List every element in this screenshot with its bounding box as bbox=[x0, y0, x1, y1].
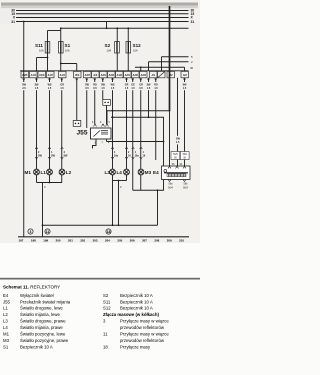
wire drop x36.5 bbox=[36, 58, 38, 71]
svg-text:Bezpiecznik 10 A: Bezpiecznik 10 A bbox=[20, 344, 53, 349]
lamp labels bbox=[25, 170, 160, 175]
svg-text:A2/2: A2/2 bbox=[133, 74, 139, 77]
svg-text:J/1: J/1 bbox=[152, 74, 156, 77]
svg-text:L4: L4 bbox=[3, 325, 8, 330]
svg-text:S2: S2 bbox=[105, 43, 111, 48]
junction dots mid bbox=[42, 110, 171, 226]
wire ground vertical from bus 31 bbox=[23, 22, 25, 237]
bus 31 bbox=[16, 21, 189, 23]
wire drop x161.5 bbox=[161, 57, 163, 71]
svg-text:Bezpiecznik 10 A: Bezpiecznik 10 A bbox=[120, 306, 153, 311]
svg-text:31: 31 bbox=[191, 20, 195, 24]
svg-text:przewodów reflektorów: przewodów reflektorów bbox=[120, 338, 165, 343]
wire S1 bottom bbox=[60, 53, 62, 71]
fuse S1 bbox=[59, 42, 71, 54]
connector box J/1 bbox=[150, 71, 158, 77]
wire track relay feed a bbox=[86, 78, 88, 128]
wire relay bottom pin 3 bbox=[93, 139, 97, 149]
wire track E4 pin c bbox=[184, 78, 186, 166]
wire track L2 bbox=[61, 78, 63, 183]
svg-text:10A: 10A bbox=[107, 49, 112, 53]
bottom border bbox=[18, 236, 189, 238]
wire feed X rail y28 bbox=[61, 27, 189, 29]
connector box A1/4 bbox=[30, 71, 38, 77]
svg-text:S12: S12 bbox=[133, 43, 142, 48]
svg-text:Bezpiecznik 10 A: Bezpiecznik 10 A bbox=[120, 293, 153, 298]
svg-text:A2/1: A2/1 bbox=[125, 74, 131, 77]
divider rule bbox=[0, 278, 200, 280]
svg-text:Światło mijania, prawe: Światło mijania, prawe bbox=[20, 325, 63, 330]
svg-text:16a: 16a bbox=[114, 155, 119, 158]
svg-text:210: 210 bbox=[179, 239, 184, 243]
svg-text:10A: 10A bbox=[65, 49, 70, 53]
lamp L2 bbox=[59, 169, 65, 175]
junction JM10 at 118.5,180.5 bbox=[118, 180, 120, 182]
connector box A1/1 bbox=[59, 71, 67, 77]
junction JM3 at 126.5,117.25 bbox=[126, 116, 128, 118]
svg-text:Przekaźnik świateł mijania: Przekaźnik świateł mijania bbox=[20, 299, 71, 304]
svg-text:205: 205 bbox=[117, 239, 122, 243]
ground 3 bbox=[28, 229, 33, 234]
wire stub y30.5 bbox=[48, 30, 61, 32]
svg-text:B/3: B/3 bbox=[75, 74, 80, 77]
wire pos box to relay bbox=[106, 105, 108, 124]
lamp M3 bbox=[138, 169, 144, 175]
wire track x148.5 bbox=[148, 78, 150, 117]
bus labels right bbox=[191, 8, 195, 23]
svg-text:199: 199 bbox=[43, 239, 48, 243]
switch E4 bbox=[162, 164, 191, 189]
svg-text:A/2: A/2 bbox=[183, 74, 188, 77]
svg-text:M1: M1 bbox=[3, 332, 10, 337]
svg-text:198: 198 bbox=[31, 239, 36, 243]
svg-text:A3/7: A3/7 bbox=[85, 74, 91, 77]
junction JM2 at 112.5,117.25 bbox=[112, 116, 114, 118]
wire drop x148.5 bbox=[148, 62, 150, 71]
connector box A/2 bbox=[181, 71, 189, 77]
svg-text:11: 11 bbox=[103, 332, 108, 337]
svg-text:S11: S11 bbox=[103, 299, 111, 304]
connector box texts bbox=[22, 74, 187, 77]
junction JM8 at 42.5,225.25 bbox=[42, 224, 44, 226]
junction JT6 at 140.75,67.25 bbox=[140, 66, 142, 68]
wire track M3 bbox=[140, 78, 142, 190]
wire track relay feed b bbox=[94, 78, 96, 124]
wire lamp join left bbox=[37, 182, 63, 184]
svg-text:56b: 56b bbox=[184, 183, 189, 186]
svg-text:L4: L4 bbox=[117, 170, 123, 175]
junction JM1 at 112.5,110.75 bbox=[112, 110, 114, 112]
svg-text:Przyłącze masy: Przyłącze masy bbox=[120, 344, 151, 349]
svg-text:Światło mijania, lewe: Światło mijania, lewe bbox=[20, 312, 60, 317]
connector box A2/2 bbox=[132, 71, 140, 77]
connector split arrows bbox=[35, 147, 142, 159]
svg-text:A1/9: A1/9 bbox=[39, 74, 45, 77]
wire S2 top bbox=[116, 28, 118, 41]
wire S12 bottom bbox=[127, 53, 129, 71]
connector T2 small box bbox=[73, 121, 81, 127]
svg-text:M1: M1 bbox=[25, 170, 32, 175]
svg-text:L1: L1 bbox=[41, 170, 47, 175]
scan shading top bbox=[1, 3, 198, 6]
svg-text:A/3: A/3 bbox=[93, 74, 98, 77]
svg-text:Przyłącze masy w wiązce: Przyłącze masy w wiązce bbox=[120, 319, 169, 324]
wire tap bus to y28 bbox=[106, 22, 108, 29]
junction JM7 at 118.5,225.25 bbox=[118, 224, 120, 226]
connector box A1/9 bbox=[38, 71, 46, 77]
wire branch y63.5 bbox=[61, 63, 77, 65]
svg-text:18: 18 bbox=[107, 230, 111, 234]
connector box A2/5 bbox=[21, 71, 29, 77]
wire track x156 bbox=[155, 78, 157, 160]
relay position box bbox=[103, 100, 111, 106]
svg-text:Światło pozycyjne, lewe: Światło pozycyjne, lewe bbox=[20, 332, 66, 337]
svg-text:31: 31 bbox=[11, 20, 15, 24]
junction JM11 at 157.5,190.25 bbox=[157, 189, 159, 191]
connector box A/3 bbox=[92, 71, 100, 77]
wire drop x141 bbox=[140, 67, 142, 71]
connector box A3/1 bbox=[100, 71, 108, 77]
junction JM6 at 112.5,225.25 bbox=[112, 224, 114, 226]
svg-text:201: 201 bbox=[68, 239, 73, 243]
track numbers bbox=[19, 239, 185, 243]
svg-text:3: 3 bbox=[30, 230, 32, 234]
wire S11 bottom bbox=[47, 53, 49, 71]
lamp L3 bbox=[110, 169, 116, 175]
svg-text:56a: 56a bbox=[169, 183, 174, 186]
svg-text:10A: 10A bbox=[39, 49, 44, 53]
svg-text:S1: S1 bbox=[3, 344, 9, 349]
svg-text:Złącza masowe (w kółkach): Złącza masowe (w kółkach) bbox=[103, 312, 159, 317]
wire labels mid height bbox=[38, 151, 146, 158]
svg-text:J55: J55 bbox=[77, 129, 88, 136]
svg-text:A1/3: A1/3 bbox=[117, 74, 123, 77]
wire branch y57.5 bbox=[37, 57, 48, 59]
svg-text:S12: S12 bbox=[103, 306, 111, 311]
svg-text:209: 209 bbox=[167, 239, 172, 243]
junction JT5 at 60.75,63.5 bbox=[60, 63, 62, 65]
svg-text:L2: L2 bbox=[66, 170, 72, 175]
svg-text:200: 200 bbox=[56, 239, 61, 243]
junction JT3 at 60.75,28.25 bbox=[60, 27, 62, 29]
lamp L4 bbox=[124, 169, 130, 175]
svg-text:Światło drogowe, lewe: Światło drogowe, lewe bbox=[20, 306, 63, 311]
svg-text:Schemat 11. REFLEKTORY: Schemat 11. REFLEKTORY bbox=[3, 284, 60, 289]
svg-text:56/2: 56/2 bbox=[182, 154, 187, 156]
wire S1 top bbox=[60, 28, 62, 41]
svg-text:Światło drogowe, prawe: Światło drogowe, prawe bbox=[20, 319, 66, 324]
connector box B/3 bbox=[74, 71, 82, 77]
junction JT2 at 128.25,28.25 bbox=[127, 27, 129, 29]
junction JM9 at 49.5,182.5 bbox=[49, 182, 51, 184]
ground 11 bbox=[45, 229, 50, 234]
wire S12 top bbox=[127, 28, 129, 41]
svg-text:A1/1: A1/1 bbox=[60, 74, 66, 77]
svg-text:A1/7: A1/7 bbox=[48, 74, 54, 77]
wire S2 bottom bbox=[116, 53, 118, 71]
wire S11 top bbox=[47, 31, 49, 42]
legend right column bbox=[103, 293, 169, 350]
bus 15 bbox=[16, 13, 189, 15]
wire ground drop left bbox=[42, 183, 44, 237]
wire drop x184.5 bbox=[184, 67, 186, 71]
bus 30 bbox=[16, 10, 189, 12]
svg-text:Bezpiecznik 10 A: Bezpiecznik 10 A bbox=[120, 299, 153, 304]
svg-text:S11: S11 bbox=[35, 43, 43, 48]
wire track to connector T2 bbox=[76, 78, 78, 121]
svg-text:197: 197 bbox=[19, 239, 24, 243]
svg-text:L3: L3 bbox=[105, 170, 111, 175]
svg-text:207: 207 bbox=[142, 239, 147, 243]
wire drop x78.8 bbox=[76, 64, 78, 71]
bus X bbox=[16, 17, 189, 19]
svg-text:przewodów reflektorów: przewodów reflektorów bbox=[120, 325, 165, 330]
wire labels under row bbox=[22, 84, 187, 91]
connector contact marks bbox=[23, 79, 186, 81]
svg-text:10A: 10A bbox=[133, 49, 138, 53]
wire ground drop E4 bbox=[157, 190, 159, 225]
wire track relay feed c bbox=[102, 78, 104, 100]
connector box slashed bbox=[158, 71, 166, 77]
junction dots top bbox=[47, 27, 142, 68]
wire E4 ground jog bbox=[133, 180, 164, 191]
wire track L1 bbox=[49, 78, 51, 183]
connector rail bbox=[20, 70, 189, 72]
svg-text:203: 203 bbox=[93, 239, 98, 243]
wire relay out y112 bbox=[107, 111, 170, 124]
svg-text:A2/3: A2/3 bbox=[109, 74, 115, 77]
svg-text:J/2: J/2 bbox=[169, 74, 173, 77]
svg-text:A2/5: A2/5 bbox=[22, 74, 28, 77]
connector box J/2 bbox=[167, 71, 175, 77]
wire track L3 bbox=[112, 78, 114, 225]
svg-text:A2/4: A2/4 bbox=[141, 74, 147, 77]
svg-text:204: 204 bbox=[105, 239, 110, 243]
svg-text:E4: E4 bbox=[3, 293, 9, 298]
fuse S2 bbox=[105, 42, 120, 54]
svg-text:56/4: 56/4 bbox=[168, 186, 173, 189]
svg-text:L1: L1 bbox=[3, 306, 8, 311]
wire track M1 bbox=[36, 78, 38, 183]
wire exit y62 bbox=[149, 61, 189, 63]
connector pair 16/2 16/3 bbox=[171, 136, 189, 160]
svg-text:Wyłącznik świateł: Wyłącznik świateł bbox=[20, 293, 54, 298]
lamp L1 bbox=[47, 169, 53, 175]
svg-text:L2: L2 bbox=[3, 312, 8, 317]
svg-text:J55: J55 bbox=[3, 299, 11, 304]
wire lamp join right bbox=[113, 180, 127, 182]
legend left column bbox=[3, 293, 71, 350]
wire relay out y118 bbox=[111, 117, 164, 166]
wire ground drop mid bbox=[118, 181, 120, 226]
lamp M1 bbox=[34, 169, 40, 175]
fuse S11 bbox=[35, 42, 50, 54]
wire thick feed from bus 30 to switch E4 bbox=[169, 6, 171, 111]
connector box A1/7 bbox=[47, 71, 55, 77]
connector box A2/3 bbox=[108, 71, 116, 77]
wire exit y67.5 bbox=[135, 66, 185, 68]
svg-text:E4: E4 bbox=[153, 170, 159, 175]
svg-text:S2: S2 bbox=[103, 293, 109, 298]
connector box A1/3 bbox=[116, 71, 124, 77]
svg-text:Światło pozycyjne, prawe: Światło pozycyjne, prawe bbox=[20, 338, 69, 343]
svg-text:11: 11 bbox=[46, 230, 50, 234]
wire exit y57 bbox=[162, 56, 189, 58]
svg-text:30: 30 bbox=[190, 66, 194, 70]
svg-text:18: 18 bbox=[103, 344, 108, 349]
ground 18 bbox=[106, 229, 111, 234]
exit labels right bbox=[190, 55, 194, 70]
wire track L4 bbox=[126, 78, 128, 181]
wire track x133 bbox=[132, 78, 134, 190]
svg-text:A3/1: A3/1 bbox=[101, 74, 107, 77]
svg-text:206: 206 bbox=[130, 239, 135, 243]
svg-text:L3: L3 bbox=[3, 319, 8, 324]
wire relay bottom pin 4 bbox=[107, 139, 164, 142]
svg-text:S1: S1 bbox=[65, 43, 71, 48]
svg-text:A1/4: A1/4 bbox=[31, 74, 37, 77]
bus labels left bbox=[11, 8, 16, 23]
svg-text:56/5: 56/5 bbox=[173, 154, 178, 156]
connector box A3/7 bbox=[84, 71, 92, 77]
svg-text:202: 202 bbox=[80, 239, 85, 243]
svg-text:56/3: 56/3 bbox=[183, 186, 188, 189]
svg-text:Przyłącze masy w wiązce: Przyłącze masy w wiązce bbox=[120, 332, 169, 337]
svg-text:208: 208 bbox=[154, 239, 159, 243]
wire ground bus bottom bbox=[43, 224, 158, 226]
junction JT1 at 117.25,28.25 bbox=[116, 27, 118, 29]
junction JT4 at 47.5,57.5 bbox=[47, 57, 49, 59]
svg-text:M3: M3 bbox=[3, 338, 10, 343]
svg-text:16a: 16a bbox=[135, 155, 140, 158]
fuse S12 bbox=[126, 42, 141, 54]
connector box A2/4 bbox=[140, 71, 148, 77]
relay J55 bbox=[77, 122, 112, 145]
wire track E4 pin b bbox=[177, 78, 179, 166]
junction JM4 at 148.5,117.25 bbox=[148, 116, 150, 118]
connector box A2/1 bbox=[124, 71, 132, 77]
svg-text:M3: M3 bbox=[145, 170, 152, 175]
junction JM5 at 169.5,110.75 bbox=[169, 110, 171, 112]
